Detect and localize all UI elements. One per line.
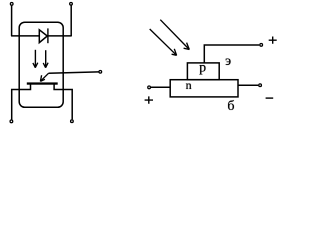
svg-text:p: p: [199, 61, 206, 76]
svg-text:б: б: [227, 99, 234, 114]
svg-text:э: э: [225, 54, 231, 69]
svg-text:n: n: [186, 78, 192, 92]
